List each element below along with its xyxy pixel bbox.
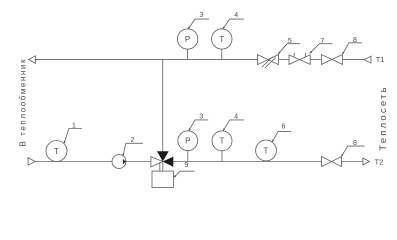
thermometer T (pos 4, top) [212,29,232,49]
svg-text:Т: Т [219,35,224,44]
pressure gauge P (pos 3, top) [177,29,197,49]
arrow: top-left outlet [29,56,36,64]
check valve 5 [258,55,269,65]
svg-text:6: 6 [281,123,285,130]
thermometer T circle (pos 6) [256,140,277,161]
thermometer T1 circle (pos 1) [46,141,67,162]
stem of gauge 4 bottom [221,151,223,162]
pressure gauge P (pos 3, bottom) [178,131,198,151]
svg-text:9: 9 [184,162,188,169]
wire: vertical branch to 3-way valve [162,60,164,152]
arrow: T2 outlet [363,158,370,165]
check valve 5 slash [262,57,273,67]
label 3 top leader [188,19,209,29]
svg-text:Т1: Т1 [376,55,385,64]
svg-text:3: 3 [199,114,203,121]
label 2 leader [123,143,143,156]
wire: bottom return pipe left [35,161,112,163]
3-way control valve 9: left open triangle [151,157,163,167]
wire: bottom pipe valve 8 to T2 arrow [341,161,363,163]
label 9 leader [174,171,195,178]
svg-text:5: 5 [288,38,292,45]
3-way control valve 9: stem to actuator [162,162,164,172]
actuator box of valve 9 [152,171,173,187]
label 5 leader [278,44,300,55]
svg-text:Т: Т [264,146,269,155]
stem of gauge 3 bottom [187,151,189,162]
svg-text:3: 3 [200,12,204,19]
label 4 top leader [223,19,244,29]
svg-text:8: 8 [353,140,357,147]
leader arrowheads [64,27,345,178]
stem of gauge 4 top [221,49,223,59]
3-way control valve 9: right filled triangle [163,157,174,167]
wire: bottom pipe pump to valve 9 [126,161,151,163]
3-way control valve 9: top filled triangle [157,151,169,161]
svg-text:2: 2 [130,137,134,144]
label 1 leader [64,129,82,144]
valve 7 ticks [293,53,296,57]
wire: top pipe between valve 7 and valve 8 [310,59,321,61]
wire: bottom pipe valve 9 to valve 8 [173,161,321,163]
valve 7 [289,55,299,65]
thermometer T (pos 4, bottom) [212,131,232,151]
arrow: bottom-left inlet [28,158,35,166]
svg-text:8: 8 [353,37,357,44]
svg-text:4: 4 [234,12,238,19]
label 8 bottom leader [341,146,364,157]
svg-text:Р: Р [185,137,190,146]
label 7 leader [310,44,333,54]
svg-text:Т2: Т2 [375,157,384,166]
svg-text:В теплообменник: В теплообменник [18,58,27,147]
pump 2 [112,155,126,169]
wire: top pipe from valve 8 to T1 arrow [342,59,364,61]
svg-text:1: 1 [72,122,76,129]
arrow: T1 inlet [364,56,371,63]
wire: top pipe between valve 5 and valve 7 [279,59,290,61]
label 8 top leader [342,43,362,55]
svg-text:7: 7 [320,38,324,45]
label 6 leader [272,132,291,143]
svg-text:Теплосеть: Теплосеть [378,85,389,150]
label 4 bottom leader [223,120,244,131]
gate valve 8 (top) [321,55,342,65]
wire: top supply pipe [36,59,258,61]
svg-text:4: 4 [234,114,238,121]
stem of gauge 3 top [187,49,189,59]
svg-text:Т: Т [220,137,225,146]
gate valve 8 (bottom) [322,157,342,167]
svg-text:Т: Т [54,147,59,156]
label 3 bottom leader [189,120,209,131]
svg-text:Р: Р [185,35,190,44]
